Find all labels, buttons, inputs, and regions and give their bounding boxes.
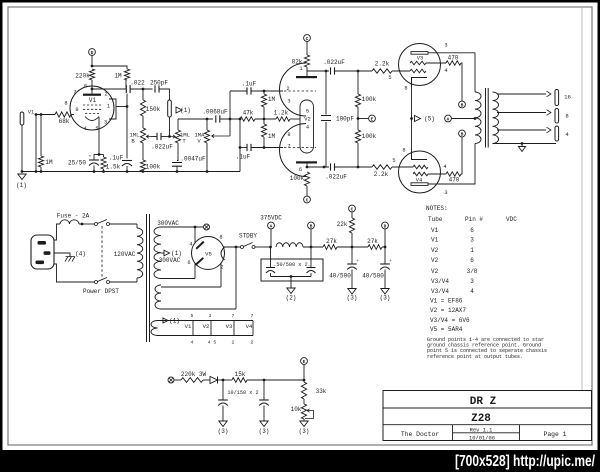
jack input	[20, 112, 24, 125]
svg-text:VDC: VDC	[506, 216, 517, 223]
svg-text:3/8: 3/8	[467, 268, 478, 275]
wire 2.2k to V4 grid	[392, 166, 413, 168]
capacitor .0047uF	[172, 156, 206, 167]
resistor 470 V4 screen	[446, 172, 461, 184]
node A (OT center tap)	[445, 115, 452, 122]
junction	[306, 166, 309, 169]
wire 68k to V1 grid	[71, 114, 74, 116]
wire E stub	[358, 118, 368, 120]
notes row V1 pin 6	[431, 227, 474, 234]
resistor 27k second	[367, 238, 382, 249]
wire heater rail bottom	[158, 335, 254, 337]
wire V2 lower plate down	[306, 164, 308, 168]
ground (3) bias pot	[299, 421, 310, 435]
power transformer 5V winding	[155, 285, 161, 309]
wire 470 to node B upper	[461, 63, 462, 101]
resistor 2.2k V3 grid	[372, 61, 392, 82]
svg-text:4: 4	[83, 126, 86, 132]
wire upper row to 2.2k	[335, 70, 373, 72]
wire 1M down	[125, 80, 127, 89]
junction	[126, 105, 129, 108]
jack send (1)	[168, 100, 172, 117]
resistor 2.2k V4 grid	[372, 158, 396, 178]
svg-text:A: A	[447, 116, 450, 122]
capacitor .1uF screen bypass	[109, 155, 132, 167]
notes row V2 pin 6	[431, 257, 474, 264]
svg-text:9: 9	[75, 107, 78, 113]
wire 1M lower top	[263, 119, 265, 124]
svg-text:100k: 100k	[362, 133, 377, 140]
junction	[290, 275, 293, 278]
junction	[142, 88, 145, 91]
svg-text:.1uF: .1uF	[242, 81, 257, 88]
svg-text:1.2k: 1.2k	[274, 110, 289, 117]
V4 control grid zigzag	[413, 165, 428, 169]
junction	[206, 170, 209, 173]
wire .022uF left	[151, 136, 157, 138]
wire pot to ground	[303, 419, 305, 421]
junction	[194, 226, 197, 229]
wire 250pF to send jack	[159, 89, 170, 100]
svg-text:1M: 1M	[268, 133, 276, 140]
svg-text:V2: V2	[431, 268, 439, 275]
V3 plate bar	[411, 52, 428, 55]
wire V3 plate to OT	[428, 53, 475, 92]
svg-text:8: 8	[565, 113, 568, 120]
junction	[325, 70, 328, 73]
wire V4 plate to OT	[428, 144, 475, 185]
node E (bias out)	[301, 358, 308, 365]
wire 22k to rail	[351, 233, 353, 247]
svg-text:(1): (1)	[171, 250, 182, 257]
capacitor 10/150 B	[259, 380, 269, 406]
resistor 220k 3W bias	[181, 371, 207, 382]
svg-text:+: +	[89, 155, 92, 160]
svg-text:1M: 1M	[114, 73, 122, 80]
junction	[357, 117, 360, 120]
wire standby to A node	[255, 246, 271, 248]
notes table header	[428, 216, 517, 223]
junction	[263, 146, 266, 149]
junction	[35, 170, 38, 173]
svg-text:7: 7	[287, 144, 290, 150]
svg-text:C: C	[351, 206, 354, 212]
svg-text:V4: V4	[246, 323, 253, 330]
fuse 2A	[57, 213, 90, 225]
svg-text:220k: 220k	[75, 73, 90, 80]
svg-text:3: 3	[444, 190, 447, 196]
svg-text:V4: V4	[416, 178, 422, 184]
svg-text:3: 3	[287, 99, 290, 105]
wire V3 screen to 470	[426, 62, 446, 64]
jack speaker 4 ohm	[555, 126, 559, 141]
svg-text:3: 3	[209, 313, 212, 319]
resistor 47k grid stopper	[240, 110, 255, 122]
wire 1.5k to bus	[103, 169, 105, 172]
power transformer primary winding	[137, 224, 143, 282]
wire send jack to tone bus	[169, 117, 171, 137]
svg-text:Power DPST: Power DPST	[83, 288, 119, 295]
wire 5V winding bottom	[161, 308, 236, 310]
svg-text:120VAC: 120VAC	[114, 251, 136, 258]
notes row V3/V4 pin 3	[431, 278, 474, 285]
junction	[410, 117, 413, 120]
ground (4) chassis	[65, 251, 86, 262]
svg-text:3: 3	[470, 278, 474, 285]
wire V1 cathode down	[98, 117, 100, 155]
svg-text:100pF: 100pF	[336, 116, 354, 123]
wire switch to PT primary bottom	[110, 281, 138, 283]
V3 cathode	[412, 78, 428, 87]
svg-text:220k 3W: 220k 3W	[181, 371, 207, 378]
wire 27k2 to D	[382, 246, 385, 248]
wire cap1 drop	[270, 247, 272, 267]
junction	[269, 246, 272, 249]
svg-text:6: 6	[299, 167, 302, 173]
volume wiper arrow	[212, 134, 230, 137]
junction	[98, 153, 101, 156]
wire 100k upper top	[357, 71, 359, 94]
svg-text:V1: V1	[431, 227, 439, 234]
node A (B+ main)	[268, 222, 275, 229]
jack speaker 16 ohm	[555, 90, 559, 106]
ground (3) filter A	[347, 289, 358, 302]
svg-text:7: 7	[73, 90, 76, 96]
svg-text:68k: 68k	[59, 118, 70, 125]
wire V4 screen to 470	[428, 173, 446, 175]
wire 1.2k to cathode capsule	[290, 118, 300, 120]
svg-text:4 5: 4 5	[208, 340, 217, 346]
junction	[206, 118, 209, 121]
junction	[176, 170, 179, 173]
wire treble top	[177, 119, 179, 130]
resistor 1M PI upper	[261, 94, 275, 107]
wire volume bottom	[206, 143, 208, 172]
wire .022uF to tone junction	[161, 136, 170, 138]
junction	[142, 170, 145, 173]
svg-text:V2: V2	[203, 323, 210, 330]
svg-text:A: A	[270, 223, 273, 229]
junction	[126, 170, 129, 173]
wire cap2 to common	[310, 273, 312, 277]
svg-text:(3): (3)	[299, 428, 310, 435]
svg-text:5: 5	[306, 109, 309, 115]
notes row V1 pin 3	[431, 237, 474, 244]
capacitor .1uF PI input upper	[242, 81, 257, 95]
potentiometer 1ML T treble	[175, 130, 190, 145]
svg-text:40/500: 40/500	[362, 273, 384, 280]
wire 100k lower top	[357, 119, 359, 131]
notes ground paragraph	[427, 337, 547, 360]
svg-text:(3): (3)	[218, 428, 229, 435]
wire screen riser	[126, 94, 128, 159]
wire bias cap A stem	[222, 406, 224, 422]
svg-text:8: 8	[64, 101, 67, 107]
svg-text:(5): (5)	[424, 116, 435, 123]
wire node D to rail	[91, 55, 93, 66]
wire V5 pin6	[194, 263, 196, 279]
wire treble bottom to .0047uF	[177, 143, 178, 161]
svg-text:100k: 100k	[290, 175, 305, 182]
ground marker (1) PT center tap	[164, 250, 182, 257]
svg-text:.022uF: .022uF	[323, 59, 345, 66]
wire 100k V2 to C node	[306, 186, 308, 196]
wire D rail to 1M	[92, 66, 127, 69]
svg-text:300VAC: 300VAC	[157, 220, 179, 227]
junction	[35, 113, 38, 116]
junction	[91, 88, 94, 91]
V3 control grid zigzag	[410, 69, 426, 73]
wire 150k to bass pot	[142, 116, 144, 128]
capacitor 25/50 cathode bypass	[68, 155, 99, 167]
svg-text:C: C	[306, 36, 309, 42]
svg-text:1M: 1M	[45, 159, 53, 166]
heater tap V4	[246, 313, 254, 346]
wire C down to 22k	[351, 212, 353, 218]
svg-text:(1): (1)	[169, 318, 180, 325]
junction	[263, 379, 266, 382]
svg-text:V5: V5	[205, 251, 212, 258]
svg-text:V1 = EF86: V1 = EF86	[430, 298, 463, 305]
svg-text:2: 2	[251, 340, 254, 346]
V4 cathode	[412, 151, 428, 160]
wire X to 220k	[174, 379, 181, 381]
svg-text:1.5k: 1.5k	[106, 164, 121, 171]
svg-text:B: B	[310, 223, 313, 229]
tube V5 5AR4 envelope	[192, 237, 225, 270]
svg-text:.0047uF: .0047uF	[180, 156, 206, 163]
resistor 1M PI lower	[261, 124, 275, 140]
V1 plate bar	[83, 94, 101, 96]
junction	[357, 166, 360, 169]
svg-text:470: 470	[448, 55, 459, 62]
wire bass pot to 100k	[142, 143, 144, 160]
capacitor 50/500 B	[307, 268, 316, 274]
svg-text:2: 2	[286, 86, 289, 92]
capacitor .1uF PI input lower	[236, 144, 251, 161]
resistor 33k bias	[301, 382, 326, 399]
svg-text:(2): (2)	[286, 295, 297, 302]
wire input shunt drop	[35, 115, 37, 172]
capacitor .022uF to V3	[323, 59, 345, 75]
svg-text:reference point at output tube: reference point at output tubes.	[427, 354, 523, 360]
wire switch to PT primary	[110, 223, 138, 225]
node D (preamp B+)	[89, 49, 96, 56]
capacitor 100pF across PI	[321, 71, 354, 167]
junction	[351, 246, 354, 249]
wire can ground stem	[290, 277, 292, 289]
svg-text:D: D	[384, 223, 387, 229]
wire 25/50 to bus	[93, 166, 95, 172]
svg-text:3: 3	[444, 43, 447, 49]
svg-text:(3): (3)	[380, 295, 391, 302]
wire volume top	[206, 119, 208, 130]
svg-text:V3: V3	[417, 56, 423, 62]
bias pot wiper	[305, 409, 314, 419]
power transformer core	[147, 214, 150, 342]
V2 lower plate bar	[296, 161, 317, 163]
wire secondary common	[493, 143, 557, 145]
svg-text:[700x528] http://upic.me/: [700x528] http://upic.me/	[455, 453, 596, 470]
junction	[521, 142, 524, 145]
wire inlet hot to fuse	[54, 224, 60, 240]
svg-text:(3): (3)	[347, 295, 358, 302]
wire 100k lower bottom	[357, 143, 359, 167]
svg-text:.1uF: .1uF	[109, 155, 124, 162]
svg-text:V5 = 5AR4: V5 = 5AR4	[430, 326, 463, 333]
svg-text:2: 2	[232, 340, 235, 346]
wire wiper riser	[229, 91, 231, 136]
svg-text:V3: V3	[226, 323, 233, 330]
diode bias rectifier	[210, 377, 218, 384]
wire HV center tap	[161, 252, 164, 254]
junction	[239, 146, 242, 149]
wire plate node into V1	[91, 89, 93, 94]
wire HV top to V5 plate	[161, 226, 203, 228]
arrow tap 16	[547, 91, 552, 97]
wire 5V winding top	[161, 286, 221, 288]
junction	[40, 170, 43, 173]
tube V4 6V6 envelope	[399, 151, 441, 193]
svg-text:B: B	[461, 131, 464, 137]
svg-text:(1): (1)	[16, 182, 27, 189]
svg-text:4: 4	[470, 288, 474, 295]
svg-text:250pF: 250pF	[150, 80, 168, 87]
svg-text:.0068uF: .0068uF	[202, 109, 228, 116]
node C (supply)	[349, 205, 356, 212]
resistor 100k V2 lower plate	[290, 172, 310, 186]
svg-text:V2: V2	[304, 117, 310, 123]
junction	[40, 113, 43, 116]
potentiometer 1MA V volume	[194, 130, 209, 145]
svg-text:+: +	[389, 259, 392, 264]
svg-text:8: 8	[402, 148, 405, 154]
V1 screen bracket	[109, 99, 116, 119]
ground (3) filter B	[380, 289, 391, 302]
wire lower .1uF to pin7	[251, 147, 283, 149]
wire 47k to junction	[255, 118, 276, 120]
svg-text:V1: V1	[28, 110, 34, 116]
svg-text:1: 1	[107, 104, 110, 110]
junction	[263, 118, 266, 121]
svg-text:(1): (1)	[180, 107, 191, 114]
svg-text:DR Z: DR Z	[470, 396, 497, 408]
svg-text:6: 6	[470, 257, 474, 264]
junction	[81, 223, 84, 226]
svg-text:2.2k: 2.2k	[374, 171, 389, 178]
svg-text:8: 8	[404, 86, 407, 92]
junction	[357, 70, 360, 73]
wire C to 82k	[306, 41, 308, 55]
svg-text:4: 4	[189, 242, 192, 248]
wire lower .1uF left	[240, 147, 247, 149]
wire cathode tee	[94, 154, 104, 156]
V4 plate bar	[411, 183, 428, 186]
heater tap V2	[203, 313, 217, 346]
wire 220k to plate node	[91, 80, 93, 89]
svg-text:82k: 82k	[292, 59, 303, 66]
node B (V4 screen)	[459, 130, 466, 137]
junction	[229, 118, 232, 121]
capacitor can 50/500 x 2 box	[261, 259, 323, 281]
svg-text:3: 3	[104, 120, 107, 126]
V5 plate slash pin4	[196, 242, 204, 249]
tube V2 12AX7 upper envelope	[280, 63, 307, 116]
svg-text:5: 5	[95, 126, 98, 132]
capacitor 40/500 A	[329, 259, 359, 280]
svg-text:5: 5	[392, 158, 395, 164]
svg-text:4: 4	[444, 68, 447, 74]
svg-text:V2 = 12AX7: V2 = 12AX7	[430, 307, 466, 314]
resistor 1.5k cathode	[101, 155, 121, 171]
switch standby	[241, 246, 244, 249]
title block frame	[383, 391, 592, 441]
capacitor 250pF	[150, 80, 168, 93]
capacitor .022uF bass	[151, 133, 173, 151]
wire riser top	[230, 90, 247, 92]
svg-text:E: E	[371, 116, 374, 122]
resistor 1M (V1 grid2 feed)	[114, 69, 129, 80]
wire V5 pin4 drop	[194, 227, 196, 243]
junction	[93, 170, 96, 173]
tube V2 12AX7 lower envelope	[280, 124, 307, 177]
svg-text:10/01/06: 10/01/06	[469, 435, 495, 441]
wire 150k top	[142, 89, 144, 100]
wire bracket to riser	[116, 106, 127, 108]
svg-text:5: 5	[191, 313, 194, 319]
resistor 100k bias upper	[355, 94, 376, 107]
node X (bias tap)	[204, 224, 210, 230]
svg-text:.022: .022	[130, 80, 145, 87]
svg-text:10k: 10k	[291, 406, 302, 413]
svg-text:.1uF: .1uF	[236, 154, 251, 161]
svg-text:2: 2	[104, 92, 107, 98]
svg-text:D: D	[91, 50, 94, 56]
switch gang dashed link	[101, 226, 103, 280]
ground (3) bias B	[259, 421, 270, 435]
wire cap1 to common	[270, 273, 272, 277]
svg-text:3: 3	[470, 237, 474, 244]
resistor 100k tone	[140, 160, 160, 172]
resistor 82k PI plate	[292, 55, 310, 67]
svg-text:V2: V2	[431, 257, 439, 264]
svg-text:1M: 1M	[268, 96, 276, 103]
wire .022 to 250pF	[130, 88, 152, 90]
resistor 22k	[337, 218, 355, 233]
wire 40/500 B drop	[384, 247, 386, 264]
V5 cathode arc	[221, 247, 225, 260]
treble wiper arrow	[170, 135, 176, 138]
svg-text:NOTES:: NOTES:	[426, 205, 448, 212]
wire 1M upper ends	[263, 91, 265, 94]
capacitor 10/150 A	[218, 380, 228, 406]
svg-text:7: 7	[232, 313, 235, 319]
wire V5 cathode out	[224, 246, 241, 248]
wire upper plate row	[307, 70, 329, 72]
node C (V2 lower plate supply)	[304, 196, 311, 203]
node B (screen supply)	[308, 222, 315, 229]
heater tap V1	[185, 313, 194, 346]
node E (bias at PI)	[369, 115, 376, 122]
V2 upper grid dashes	[284, 90, 316, 92]
wire lower plate row	[307, 166, 329, 168]
V4 screen grid zigzag	[413, 172, 428, 176]
svg-text:25/50: 25/50	[68, 160, 86, 167]
svg-text:7: 7	[251, 313, 254, 319]
capacitor 40/500 B	[362, 259, 392, 280]
notes divider line	[581, 7, 583, 391]
svg-text:1: 1	[299, 66, 302, 72]
